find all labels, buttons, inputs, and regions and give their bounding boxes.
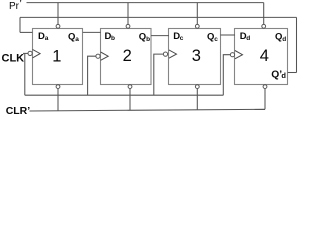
preset bubble U1 xyxy=(56,24,60,28)
svg-text:4: 4 xyxy=(260,47,269,65)
flip-flop U3 box xyxy=(169,29,221,85)
clear bubble U1 xyxy=(56,85,60,89)
svg-text:Q: Q xyxy=(68,32,75,43)
svg-text:d: d xyxy=(281,71,286,80)
clear bubble U2 xyxy=(128,85,132,89)
svg-text:1: 1 xyxy=(52,47,61,65)
flip-flop U2 box xyxy=(101,29,152,85)
svg-text:c: c xyxy=(214,36,218,43)
clear bubble U3 xyxy=(195,85,199,89)
flip-flop U1 box xyxy=(33,29,83,85)
wire feedback left vertical to Da xyxy=(19,17,21,32)
svg-text:b: b xyxy=(146,36,150,43)
wire preset drop to U3 xyxy=(196,3,198,25)
svg-text:Pr: Pr xyxy=(9,1,20,12)
wire preset drop to U4 xyxy=(263,3,265,25)
svg-text:c: c xyxy=(180,35,184,42)
wire CLK bottom bus xyxy=(25,94,224,96)
flip-flop U4 box xyxy=(235,29,288,85)
wire Q'd feedback top horizontal xyxy=(20,16,297,18)
svg-text:2: 2 xyxy=(123,47,132,65)
clock bubble U1 xyxy=(28,51,32,55)
wire Qb to Dc xyxy=(151,35,169,37)
clear bubble U4 xyxy=(263,85,267,89)
wire CLK riser to U2 xyxy=(88,56,96,95)
svg-text:d: d xyxy=(282,36,286,43)
svg-text:a: a xyxy=(45,35,49,42)
clock edge triangle U2 xyxy=(101,52,109,60)
svg-text:Q: Q xyxy=(139,32,146,43)
svg-text:3: 3 xyxy=(192,47,201,65)
wire preset drop to U1 xyxy=(57,3,59,25)
wire feedback into Da xyxy=(20,31,32,33)
preset bubble U2 xyxy=(126,24,130,28)
preset bubble U4 xyxy=(262,24,266,28)
clock edge triangle U1 xyxy=(33,49,41,58)
wire Qc to Dd xyxy=(220,34,235,36)
svg-text:b: b xyxy=(111,35,115,42)
svg-text:CLK: CLK xyxy=(2,53,25,65)
wire Q'd output stub xyxy=(288,72,297,74)
svg-text:Q: Q xyxy=(275,32,282,43)
clock edge triangle U4 xyxy=(235,51,243,59)
clock edge triangle U3 xyxy=(169,50,177,58)
wire Qa to Db xyxy=(83,31,101,33)
svg-text:CLR’: CLR’ xyxy=(6,105,31,117)
wire CLK tee vertical xyxy=(24,53,26,95)
svg-text:d: d xyxy=(246,35,250,42)
svg-text:’: ’ xyxy=(19,0,22,11)
clock bubble U2 xyxy=(96,54,100,58)
wire CLK riser to U3 xyxy=(154,54,164,95)
preset bubble U3 xyxy=(195,24,199,28)
wire CLR' horizontal bus xyxy=(30,109,266,111)
wire Pr' horizontal bus xyxy=(27,2,264,4)
svg-text:Q: Q xyxy=(207,32,214,43)
clock bubble U4 xyxy=(230,53,234,57)
wire CLK riser to U4 xyxy=(223,55,230,95)
svg-text:a: a xyxy=(75,36,79,43)
clock bubble U3 xyxy=(163,52,167,56)
wire clear tap U2 xyxy=(129,89,131,111)
wire CLK input stub xyxy=(23,52,28,54)
wire clear tap U3 xyxy=(196,89,198,110)
wire clear tap U1 xyxy=(57,89,59,111)
wire feedback right vertical from Q'd xyxy=(296,17,298,72)
wire preset drop to U2 xyxy=(127,3,129,25)
wire clear tap U4 xyxy=(264,89,266,110)
